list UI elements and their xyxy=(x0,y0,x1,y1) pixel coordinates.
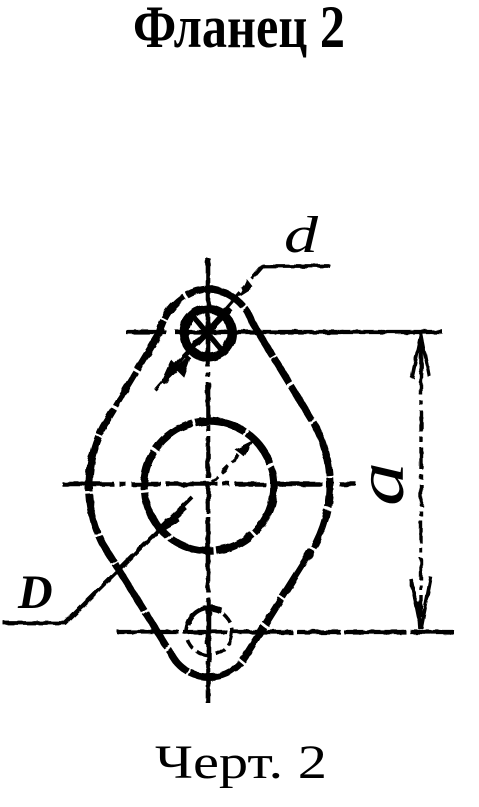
svg-text:d: d xyxy=(284,207,319,264)
hole d ring (top bolt hole) xyxy=(184,309,232,357)
vertical centerline xyxy=(206,258,211,703)
horizontal centerline (main, through circle D) xyxy=(62,482,356,487)
flange outline xyxy=(89,289,330,677)
svg-text:Фланец 2: Фланец 2 xyxy=(133,0,345,60)
hole d spoke diagonal BL-TR xyxy=(184,309,231,357)
label a (rotated) xyxy=(342,462,418,506)
bottom extension line xyxy=(117,630,455,634)
bold arrow at lower-left of hole d xyxy=(163,357,189,383)
dimension arrow bottom xyxy=(411,577,431,629)
bottom hole vertical mark xyxy=(207,600,212,662)
svg-text:a: a xyxy=(342,462,418,506)
leader line for D xyxy=(3,497,192,623)
bottom bolt hole circle xyxy=(186,609,232,655)
leader line for d xyxy=(172,266,330,370)
radius arrow inside circle D xyxy=(212,444,250,482)
circle D (large central hole) xyxy=(144,421,274,551)
dimension line a (vertical dash-dot) xyxy=(419,336,422,628)
horizontal centerline through hole d / top extension line xyxy=(126,330,443,334)
dimension arrow top xyxy=(412,334,429,378)
arrowhead on d leader at ring edge xyxy=(241,281,252,294)
hole d spoke diagonal TL-BR xyxy=(191,314,226,355)
arrowhead on D leader at circle edge xyxy=(161,508,186,530)
bottom hole bold upper arc xyxy=(188,608,222,625)
radius arrowhead xyxy=(236,441,254,456)
d leader tail dashes xyxy=(155,382,162,390)
svg-text:D: D xyxy=(17,566,53,619)
svg-text:Черт. 2: Черт. 2 xyxy=(155,736,327,789)
